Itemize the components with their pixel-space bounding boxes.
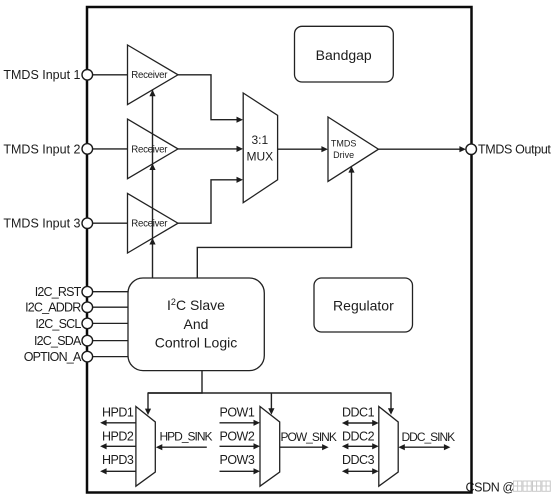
svg-text:Receiver: Receiver <box>131 70 168 81</box>
wire Receiver 1 output to MUX input 1 <box>178 75 237 120</box>
Regulator block <box>314 278 413 332</box>
wire TMDS Input 3 to Receiver 3 <box>90 222 128 224</box>
svg-text:POW_SINK: POW_SINK <box>281 430 337 444</box>
wire OPTION_A pin to logic <box>90 356 132 358</box>
receiver amplifier 1 <box>128 45 179 105</box>
svg-text:Regulator: Regulator <box>333 297 394 313</box>
watermark CJK glyph 2 <box>523 481 531 491</box>
wire Receiver 3 output to MUX input 3 <box>178 180 237 223</box>
wire I2C_ADDR pin to logic <box>90 306 129 308</box>
Bandgap block <box>295 26 394 82</box>
svg-text:HPD_SINK: HPD_SINK <box>160 429 213 443</box>
HPD sink selector <box>136 407 155 487</box>
svg-text:Drive: Drive <box>333 150 354 160</box>
svg-text:TMDS Input 2: TMDS Input 2 <box>3 142 80 156</box>
svg-text:TMDS Input 1: TMDS Input 1 <box>3 68 80 82</box>
svg-text:POW2: POW2 <box>220 429 255 443</box>
wire TMDS Input 2 to Receiver 2 <box>90 148 128 150</box>
svg-text:Bandgap: Bandgap <box>316 47 372 63</box>
wire I2C_RST pin to logic <box>90 291 131 293</box>
POW sink selector <box>260 407 280 487</box>
watermark CJK glyph 4 <box>542 481 550 491</box>
svg-text:3:1: 3:1 <box>251 133 268 147</box>
svg-text:POW3: POW3 <box>220 453 255 467</box>
svg-text:Control Logic: Control Logic <box>155 335 238 351</box>
wire TMDS Drive output to TMDS Output pin <box>379 148 460 150</box>
chip boundary <box>87 7 472 493</box>
svg-text:I2C Slave: I2C Slave <box>167 297 225 313</box>
wire I2C_SCL pin to logic <box>90 322 129 324</box>
wire control from I2C logic to receivers <box>152 90 154 279</box>
pin OPTION_A <box>82 351 93 362</box>
svg-text:CSDN @: CSDN @ <box>466 480 515 494</box>
svg-text:I2C_SCL: I2C_SCL <box>35 317 81 331</box>
TMDS Drive buffer <box>328 117 379 181</box>
svg-text:HPD1: HPD1 <box>102 405 134 419</box>
svg-text:TMDS: TMDS <box>331 139 357 149</box>
svg-text:DDC3: DDC3 <box>342 453 375 467</box>
svg-text:I2C_RST: I2C_RST <box>35 285 82 299</box>
svg-text:I2C_SDA: I2C_SDA <box>34 334 82 348</box>
wire branch to HPD selector <box>147 392 149 409</box>
svg-text:HPD3: HPD3 <box>102 453 134 467</box>
svg-text:DDC1: DDC1 <box>342 405 375 419</box>
wire I2C_SDA pin to logic <box>90 340 129 342</box>
wire MUX output to TMDS Drive <box>278 148 322 150</box>
svg-text:TMDS Output: TMDS Output <box>478 143 551 157</box>
wire control from I2C logic to TMDS Drive <box>197 170 351 279</box>
3:1 MUX <box>243 93 277 203</box>
wire Receiver 2 output to MUX input 2 <box>178 148 237 150</box>
svg-text:And: And <box>184 316 209 332</box>
watermark CSDN <box>466 480 515 494</box>
wire branch to POW selector <box>270 393 272 409</box>
pin I2C_SCL <box>82 318 93 329</box>
svg-text:TMDS Input 3: TMDS Input 3 <box>3 217 80 231</box>
pin I2C_SDA <box>82 335 93 346</box>
watermark CJK glyph 3 <box>533 481 541 491</box>
pin TMDS Input 1 <box>82 70 93 81</box>
svg-text:I2C_ADDR: I2C_ADDR <box>25 301 81 315</box>
receiver amplifier 2 <box>128 119 179 179</box>
pin TMDS Output <box>466 144 477 155</box>
pin I2C_RST <box>82 286 93 297</box>
svg-text:POW1: POW1 <box>220 405 255 419</box>
wire TMDS Input 1 to Receiver 1 <box>90 74 128 76</box>
svg-text:Receiver: Receiver <box>131 144 168 155</box>
svg-text:Receiver: Receiver <box>131 219 168 230</box>
svg-text:MUX: MUX <box>246 149 273 163</box>
receiver amplifier 3 <box>128 193 179 253</box>
pin TMDS Input 2 <box>82 144 93 155</box>
wire branch to DDC selector <box>390 392 392 409</box>
svg-text:DDC2: DDC2 <box>342 429 375 443</box>
I2C slave and control logic block <box>128 278 264 371</box>
svg-text:DDC_SINK: DDC_SINK <box>402 430 456 444</box>
DDC sink selector <box>379 407 398 487</box>
svg-text:HPD2: HPD2 <box>102 429 134 443</box>
pin TMDS Input 3 <box>82 218 93 229</box>
pin I2C_ADDR <box>82 302 93 313</box>
svg-text:OPTION_A: OPTION_A <box>24 350 82 364</box>
wire control bus from I2C logic to sink selectors <box>148 371 202 393</box>
watermark CJK glyph 1 <box>514 481 522 491</box>
